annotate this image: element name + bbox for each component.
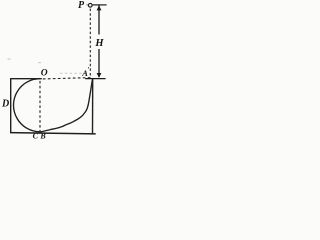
svg-text:C: C <box>33 131 39 140</box>
noise speck mid <box>38 62 41 63</box>
svg-text:B: B <box>39 131 46 140</box>
faint ghost dashed line near A' <box>60 72 88 74</box>
svg-text:O: O <box>41 68 48 78</box>
H dimension down arrowhead <box>97 73 102 78</box>
ball trajectory dashed line <box>89 9 91 78</box>
box left edge <box>10 78 12 133</box>
box top edge <box>10 78 42 80</box>
svg-text:′: ′ <box>87 66 89 74</box>
ball at P <box>88 3 92 7</box>
curved track: left semicircle and right quarter ramp <box>14 79 93 132</box>
svg-text:D: D <box>1 98 9 109</box>
H dimension line upper segment <box>98 5 100 34</box>
tick between P and ball <box>86 4 88 6</box>
dashed radius line O to A' <box>43 78 92 79</box>
dashed radius line O to B <box>39 81 41 132</box>
svg-text:H: H <box>94 38 104 49</box>
noise speck left <box>8 59 11 60</box>
H dimension up arrowhead <box>97 5 102 10</box>
H dimension line lower segment <box>98 49 100 77</box>
H dimension bottom bar <box>85 78 105 80</box>
box bottom edge <box>10 133 96 134</box>
paper background <box>0 0 111 142</box>
box right edge <box>92 79 94 134</box>
H dimension top bar <box>93 4 107 6</box>
svg-text:P: P <box>78 0 85 11</box>
